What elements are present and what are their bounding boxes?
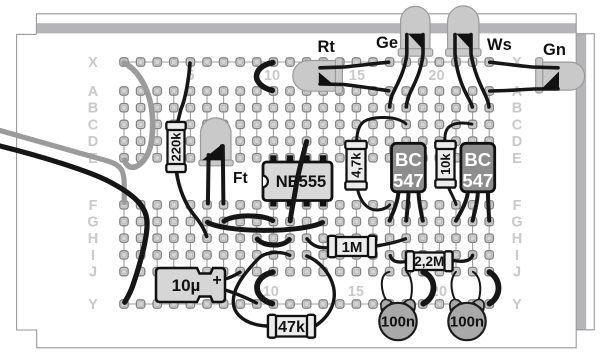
svg-text:10µ: 10µ [172, 276, 201, 295]
svg-text:J: J [513, 265, 521, 281]
svg-text:15: 15 [348, 284, 364, 300]
svg-text:Rt: Rt [318, 38, 336, 56]
svg-text:47k: 47k [278, 319, 305, 336]
svg-text:10k: 10k [438, 153, 453, 175]
svg-text:X: X [88, 55, 98, 71]
svg-text:BC: BC [464, 149, 491, 170]
svg-text:A: A [88, 84, 99, 100]
svg-text:D: D [512, 134, 522, 150]
svg-text:F: F [89, 198, 98, 214]
svg-text:E: E [512, 151, 522, 167]
svg-text:15: 15 [349, 68, 365, 84]
svg-text:Ws: Ws [487, 36, 512, 54]
svg-text:Y: Y [512, 297, 522, 313]
svg-text:Ft: Ft [233, 170, 248, 187]
svg-text:1M: 1M [342, 239, 363, 256]
svg-text:C: C [88, 117, 99, 133]
svg-text:220k: 220k [169, 132, 184, 162]
svg-text:10: 10 [264, 68, 280, 84]
svg-text:547: 547 [462, 170, 493, 191]
svg-text:100n: 100n [381, 314, 415, 331]
svg-text:H: H [88, 231, 98, 247]
svg-text:4,7k: 4,7k [349, 152, 364, 178]
svg-text:547: 547 [393, 170, 424, 191]
svg-text:G: G [87, 215, 98, 231]
svg-text:J: J [89, 265, 97, 281]
svg-text:20: 20 [428, 68, 444, 84]
svg-text:I: I [91, 248, 95, 264]
svg-text:+: + [212, 272, 221, 289]
svg-text:B: B [88, 101, 98, 117]
svg-text:G: G [511, 215, 522, 231]
svg-text:2,2M: 2,2M [414, 254, 444, 269]
svg-text:B: B [512, 101, 522, 117]
svg-text:I: I [515, 248, 519, 264]
svg-text:100n: 100n [450, 314, 484, 331]
svg-text:Gn: Gn [543, 41, 566, 59]
svg-text:A: A [512, 84, 523, 100]
svg-text:Ge: Ge [376, 34, 398, 52]
svg-text:H: H [512, 231, 522, 247]
svg-text:C: C [512, 117, 523, 133]
svg-text:Y: Y [88, 297, 98, 313]
svg-text:F: F [513, 198, 522, 214]
svg-text:NE555: NE555 [276, 173, 326, 191]
svg-text:X: X [512, 55, 522, 71]
svg-text:D: D [88, 134, 98, 150]
svg-text:BC: BC [395, 149, 422, 170]
